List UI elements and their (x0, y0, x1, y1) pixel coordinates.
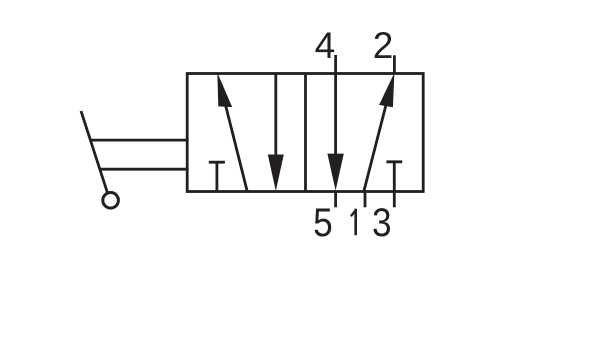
roller circle (103, 193, 119, 209)
blocked port T left stem (215, 161, 218, 191)
port 2 stub (393, 55, 396, 73)
arrow shaft left vertical (274, 74, 277, 159)
arrow shaft right diagonal (364, 101, 387, 192)
port 1 stub (364, 192, 367, 208)
arrowhead right diagonal up (379, 73, 394, 107)
arrow shaft right vertical port 4 line (334, 55, 337, 158)
svg-text:2: 2 (373, 25, 394, 66)
blocked port T right stem and port 3 stub (393, 161, 396, 208)
svg-text:3: 3 (372, 200, 392, 245)
blocked port T right crossbar (386, 160, 402, 163)
arrow shaft left diagonal (225, 101, 248, 191)
svg-text:4: 4 (315, 25, 336, 66)
wire lever shaft (81, 111, 107, 192)
arrowhead right vertical down (327, 154, 343, 191)
valve body box (187, 74, 423, 192)
arrowhead left vertical down (268, 155, 284, 192)
wire lever upper rod (91, 139, 189, 142)
blocked port T left crossbar (209, 161, 225, 164)
svg-text:5: 5 (313, 200, 333, 245)
chamber divider (304, 74, 307, 192)
port 5 stub (334, 192, 337, 208)
wire lever lower rod (100, 168, 188, 171)
arrowhead left diagonal up (217, 73, 232, 108)
label 1 (351, 209, 356, 236)
